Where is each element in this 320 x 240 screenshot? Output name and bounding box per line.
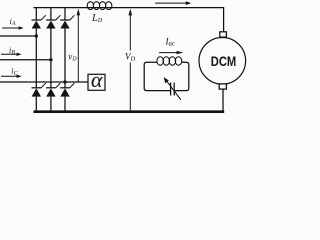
DC motor DCM circle: [199, 38, 246, 85]
svg-text:vD: vD: [68, 52, 77, 63]
DC motor top brush terminal: [220, 32, 227, 37]
DC motor bottom brush terminal: [219, 84, 226, 89]
wire phase B input: [0, 59, 51, 61]
thyristor T3 (top, leg 2): [46, 15, 60, 28]
wire gate feed to alpha box: [65, 81, 88, 83]
wire phase C input: [0, 81, 65, 83]
arrow current i_C: [1, 75, 22, 78]
variable capacitor plates: [171, 83, 175, 96]
wire phase A input: [0, 35, 36, 37]
arrow voltage V_D (filtered DC): [129, 9, 133, 111]
thyristor T2 (bottom, leg 3): [60, 83, 74, 97]
svg-text:iB: iB: [9, 46, 15, 56]
svg-text:iA: iA: [10, 17, 16, 27]
wire phase leg 1: [35, 8, 37, 111]
arrow current i_A: [2, 26, 24, 29]
wire motor bottom lead: [222, 89, 224, 111]
wire phase leg 3: [64, 8, 66, 111]
resonant loop wire (L_ac / variable capacitor branch): [144, 62, 189, 90]
thyristor T1 (top, leg 1): [32, 15, 46, 28]
wire top DC bus left segment: [34, 7, 112, 9]
node phase A junction: [35, 34, 38, 37]
wire top DC bus right segment with corner down to motor: [112, 8, 224, 32]
arrow current i_B: [1, 53, 22, 56]
thyristor T6 (bottom, leg 2): [46, 83, 60, 97]
node phase C junction: [63, 80, 66, 83]
svg-text:DCM: DCM: [211, 54, 237, 69]
wire phase leg 2: [50, 8, 52, 111]
thyristor T4 (bottom, leg 1): [32, 83, 46, 97]
inductor L_D: [87, 2, 112, 10]
wire bottom DC bus: [34, 110, 225, 113]
arrow current i_D on top bus: [155, 1, 191, 5]
label V_D (with white backing over arrow shaft): [124, 52, 137, 62]
inductor L_ac: [157, 57, 182, 65]
thyristor T5 (top, leg 3): [60, 15, 74, 28]
arrow current I_ac: [159, 51, 183, 54]
variable capacitor adjustment arrow: [164, 77, 181, 100]
svg-text:LD: LD: [91, 13, 103, 24]
arrow voltage v_D (rectifier output): [77, 9, 81, 82]
svg-text:α: α: [91, 67, 103, 92]
firing-angle controller box alpha: [88, 74, 105, 90]
svg-text:iC: iC: [11, 67, 18, 77]
svg-text:Iac: Iac: [165, 36, 175, 47]
node phase B junction: [49, 58, 52, 61]
